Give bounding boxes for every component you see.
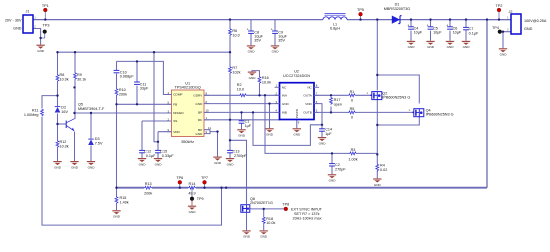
svg-text:102k: 102k xyxy=(232,71,240,75)
wire R8 column xyxy=(57,52,59,161)
ground J1 xyxy=(36,45,44,53)
wire Q6 source to ground xyxy=(246,213,248,230)
svg-text:2700pF: 2700pF xyxy=(234,154,247,158)
node H2 right xyxy=(229,51,231,53)
wire R6 R7 RC column xyxy=(229,20,231,141)
ground C6 xyxy=(446,41,454,49)
ground R4 xyxy=(373,179,381,187)
capacitor C8 polarized xyxy=(247,27,264,42)
svg-text:33pF: 33pF xyxy=(140,87,149,91)
wire comp network top rail xyxy=(117,61,172,94)
node FB comp xyxy=(115,103,117,105)
node VDD feed top xyxy=(153,51,155,53)
resistor R1 xyxy=(348,90,356,103)
wire TP2 stem xyxy=(498,12,500,20)
svg-text:SET R7 = 137k: SET R7 = 137k xyxy=(294,212,320,216)
node Q2 Q4 source xyxy=(376,124,378,126)
wire C2 stem xyxy=(331,153,333,174)
svg-text:+: + xyxy=(407,23,409,27)
capacitor C13 xyxy=(227,150,247,158)
svg-text:0.068µF: 0.068µF xyxy=(120,75,135,79)
node TP5 junction xyxy=(359,18,361,20)
node R6 top xyxy=(229,18,231,20)
svg-text:R9: R9 xyxy=(77,73,82,77)
svg-text:6.8µH: 6.8µH xyxy=(330,27,340,31)
node C5 top xyxy=(429,18,431,20)
ground R16 xyxy=(248,72,256,80)
svg-text:J1: J1 xyxy=(26,9,30,13)
ground C14 xyxy=(318,138,326,146)
svg-text:FB: FB xyxy=(173,103,177,107)
node C11 top xyxy=(136,60,138,62)
svg-text:+: + xyxy=(271,27,273,31)
svg-text:20Hz-100Hz max: 20Hz-100Hz max xyxy=(293,217,322,221)
node C2 top xyxy=(331,152,333,154)
node C6 top xyxy=(449,18,451,20)
svg-text:TP1: TP1 xyxy=(42,4,49,8)
wire C6 stem xyxy=(449,20,451,41)
node C11 bottom xyxy=(136,103,138,105)
wire bottom FB rail xyxy=(117,187,488,189)
svg-text:GND: GND xyxy=(282,102,290,106)
svg-text:BP: BP xyxy=(198,111,202,115)
wire GDRV row with R2 xyxy=(204,94,280,96)
svg-text:0.33µF: 0.33µF xyxy=(162,154,174,158)
svg-text:R12: R12 xyxy=(60,140,67,144)
capacitor C10 xyxy=(114,70,135,78)
node TP1 junction xyxy=(44,18,46,20)
node TP7 xyxy=(203,187,205,189)
svg-text:1.00k: 1.00k xyxy=(348,157,357,161)
wire C5 stem xyxy=(430,20,432,41)
resistor R8 xyxy=(56,73,69,82)
wire RC pin row xyxy=(204,119,280,121)
svg-text:10.0k: 10.0k xyxy=(60,77,69,81)
resistor R6 xyxy=(229,28,240,37)
ground Q5 emitter xyxy=(70,162,78,170)
svg-text:1: 1 xyxy=(367,91,369,95)
svg-text:7.5V: 7.5V xyxy=(95,141,103,145)
svg-text:GND: GND xyxy=(524,27,533,31)
wire R16 column xyxy=(252,71,260,96)
svg-text:RC: RC xyxy=(198,118,203,122)
svg-text:L1: L1 xyxy=(333,22,337,26)
resistor R5 xyxy=(348,107,356,120)
svg-text:0.02: 0.02 xyxy=(380,168,387,172)
node FB bottom rail xyxy=(115,187,117,189)
svg-text:R8: R8 xyxy=(60,73,65,77)
node R18 top xyxy=(263,208,265,210)
node RC R7 xyxy=(229,119,231,121)
wire U2 GND drop xyxy=(269,104,271,129)
ground J2 xyxy=(499,49,507,57)
wire C15 ground stem xyxy=(157,153,159,158)
wire TP7 stem xyxy=(204,184,206,188)
connector J2 xyxy=(507,10,547,34)
wire ISNS sense column xyxy=(265,95,377,153)
ground R18 xyxy=(260,231,268,239)
node Q2 drain top xyxy=(376,18,378,20)
wire R11 branch left xyxy=(42,96,222,226)
wire R18 column xyxy=(263,209,265,230)
resistor R14 xyxy=(188,182,196,196)
wire C9 stem xyxy=(274,20,276,46)
wire D3 column xyxy=(90,113,92,161)
ground C1 xyxy=(237,130,245,138)
wire C1 stem xyxy=(241,112,243,129)
wire U2 VDD pin column to C14 xyxy=(314,104,322,137)
svg-text:C13: C13 xyxy=(233,150,240,154)
node TP2 junction xyxy=(498,18,500,20)
node J1 gnd junction xyxy=(39,37,41,39)
svg-text:C10: C10 xyxy=(120,70,127,74)
svg-text:C14: C14 xyxy=(325,128,332,132)
svg-text:R5: R5 xyxy=(350,107,355,111)
svg-text:TP3: TP3 xyxy=(43,24,50,28)
ground D3 xyxy=(87,162,95,170)
svg-text:INB: INB xyxy=(282,111,287,115)
resistor R9 xyxy=(74,72,87,81)
wire OUTB row to Q4 gate xyxy=(314,111,412,113)
svg-text:D3: D3 xyxy=(95,137,100,141)
svg-text:SS: SS xyxy=(173,119,177,123)
svg-text:TPS40210DGQ: TPS40210DGQ xyxy=(175,86,201,90)
capacitor C6 polarized xyxy=(446,23,462,34)
svg-text:16V: 16V xyxy=(61,110,68,114)
svg-text:1: 1 xyxy=(409,108,411,112)
wire C12 ground stem xyxy=(141,153,143,158)
capacitor C2 xyxy=(329,163,346,171)
svg-text:TP2: TP2 xyxy=(496,4,503,8)
ground R15 xyxy=(112,211,120,219)
wire SS to C12 xyxy=(142,121,172,150)
svg-text:R15: R15 xyxy=(120,196,127,200)
svg-text:R6: R6 xyxy=(232,29,237,33)
node C7 top xyxy=(465,18,467,20)
svg-text:EXT SYNC INPUT: EXT SYNC INPUT xyxy=(291,207,323,211)
svg-text:GND: GND xyxy=(195,132,203,136)
capacitor C15 xyxy=(155,150,174,158)
capacitor C4 polarized xyxy=(407,23,423,34)
svg-text:1.00Meg: 1.00Meg xyxy=(24,113,39,117)
wire C11 column xyxy=(136,61,138,104)
ground C8 xyxy=(247,46,255,54)
node Q2 Q4 drain branch xyxy=(376,74,378,76)
node TP6 xyxy=(179,187,181,189)
diode D1 xyxy=(384,3,411,24)
svg-text:NC: NC xyxy=(282,86,287,90)
svg-text:10.0k: 10.0k xyxy=(262,80,271,84)
svg-text:C15: C15 xyxy=(160,150,167,154)
wire main top rail from J1 to L1 xyxy=(33,19,323,21)
svg-text:10: 10 xyxy=(206,109,210,113)
svg-text:TP4: TP4 xyxy=(492,26,499,30)
node R17 bottom xyxy=(330,111,332,113)
wire R15 column xyxy=(116,188,118,211)
svg-text:C2: C2 xyxy=(335,163,340,167)
node C4 top xyxy=(410,18,412,20)
resistor R2 xyxy=(237,83,247,97)
wire U2 VDD feed loop xyxy=(253,112,322,145)
svg-text:R17: R17 xyxy=(334,98,341,102)
ground R12 xyxy=(53,162,61,170)
wire Q2 drain column xyxy=(376,20,378,91)
ground C9 xyxy=(271,46,279,54)
ground U2 xyxy=(265,129,273,137)
svg-text:10µF: 10µF xyxy=(453,31,462,35)
svg-text:UCC27324DGN: UCC27324DGN xyxy=(283,74,310,78)
node C1 BP xyxy=(240,111,242,113)
wire Q6 drain column crossing rail xyxy=(246,188,248,204)
node sense column top xyxy=(264,94,266,96)
wire VDD rail H2 xyxy=(58,51,231,53)
wire Q5 emitter to ground xyxy=(74,132,76,162)
svg-text:1µF: 1µF xyxy=(245,124,252,128)
svg-text:C12: C12 xyxy=(144,150,151,154)
wire DIS/EN long wire xyxy=(75,112,172,114)
svg-text:0: 0 xyxy=(351,99,353,103)
svg-text:R16: R16 xyxy=(262,76,269,80)
wire C10 R10 FB column xyxy=(116,61,118,188)
op-amp U1 TPS40210DGQ xyxy=(167,82,212,145)
svg-text:200k: 200k xyxy=(119,92,127,96)
node C14 junction xyxy=(321,124,323,126)
node D2 R12 base xyxy=(56,123,58,125)
svg-text:TP8: TP8 xyxy=(282,202,289,206)
svg-text:MMBT3904-T-F: MMBT3904-T-F xyxy=(78,107,105,111)
svg-text:+: + xyxy=(446,23,448,27)
svg-text:R13: R13 xyxy=(145,182,152,186)
ground C5 xyxy=(426,41,434,49)
svg-text:TP5: TP5 xyxy=(357,8,364,12)
wire PWPD stem xyxy=(296,120,298,129)
mosfet Q2 xyxy=(367,91,411,100)
svg-text:270pF: 270pF xyxy=(335,167,346,171)
svg-text:35V: 35V xyxy=(254,39,261,43)
wire Q2 to Q4 drain branch xyxy=(377,75,419,104)
wire TP9 stem xyxy=(191,188,193,197)
wire J2 pin1 xyxy=(487,19,511,21)
svg-text:11: 11 xyxy=(208,126,211,130)
ground ISNS xyxy=(213,157,221,165)
svg-text:C1: C1 xyxy=(245,119,250,123)
wire C7 stem xyxy=(465,20,467,41)
svg-text:PWPD: PWPD xyxy=(295,108,299,118)
node R9 mid xyxy=(73,86,75,88)
svg-text:IPB600N25N3 G: IPB600N25N3 G xyxy=(382,95,410,99)
svg-text:MBRS3200T3G: MBRS3200T3G xyxy=(384,7,411,11)
capacitor C14 xyxy=(319,128,332,136)
capacitor C1 xyxy=(239,119,252,127)
svg-text:Q5: Q5 xyxy=(78,102,83,106)
wire U1 GND to U2 GND row xyxy=(204,103,280,105)
node U2 gnd drop xyxy=(268,102,270,104)
node R11 return xyxy=(220,187,222,189)
wire VDD pin to C15 xyxy=(158,132,172,151)
ground C15 xyxy=(154,159,162,167)
transistor Q5 xyxy=(66,102,105,130)
svg-text:0.1µF: 0.1µF xyxy=(146,154,156,158)
svg-text:10µF: 10µF xyxy=(414,31,423,35)
wire TP3 stem xyxy=(41,34,45,39)
svg-text:2: 2 xyxy=(34,25,36,29)
wire VDD feed column from H2 xyxy=(154,52,158,142)
svg-text:IPB600N25N3 G: IPB600N25N3 G xyxy=(426,113,454,117)
capacitor C9 polarized xyxy=(271,27,288,42)
wire R9 / Q5 collector column xyxy=(74,52,76,119)
test point TP2 xyxy=(496,4,503,12)
wire Q4 source to common xyxy=(377,117,419,125)
wire R4 stem xyxy=(376,154,378,178)
wire R17 column xyxy=(330,95,332,112)
svg-text:2N7002ET1G: 2N7002ET1G xyxy=(250,201,273,205)
svg-text:GDRV: GDRV xyxy=(193,94,203,98)
connector J1 xyxy=(5,9,36,33)
svg-text:R11: R11 xyxy=(32,108,39,112)
node ISNS pad xyxy=(216,130,218,132)
node R9 top xyxy=(74,51,76,53)
resistor R3 xyxy=(348,148,357,162)
svg-text:1.40k: 1.40k xyxy=(120,200,129,204)
svg-text:NC: NC xyxy=(307,86,312,90)
svg-text:20V - 30V: 20V - 30V xyxy=(5,19,22,23)
wire Q6 gate row to TP8 xyxy=(250,208,284,210)
svg-text:2: 2 xyxy=(507,28,509,32)
ground C7 xyxy=(462,41,470,49)
node R4 top xyxy=(376,153,378,155)
node R8 R11 D2 xyxy=(56,94,58,96)
svg-text:R2: R2 xyxy=(237,83,242,87)
resistor R13 xyxy=(144,182,152,196)
svg-text:10.0k: 10.0k xyxy=(266,221,275,225)
svg-text:+: + xyxy=(427,23,429,27)
zener D3 xyxy=(88,137,103,145)
mosfet Q6 xyxy=(241,197,273,213)
svg-text:R14: R14 xyxy=(189,182,196,186)
test point TP4 xyxy=(492,26,502,34)
node RC C13 xyxy=(229,139,231,141)
wire TP6 stem xyxy=(179,184,181,188)
resistor R17 xyxy=(330,97,342,107)
ground Q6 xyxy=(242,231,250,239)
svg-text:R1: R1 xyxy=(350,90,355,94)
svg-text:0.1µF: 0.1µF xyxy=(469,31,479,35)
test point TP3 xyxy=(43,24,50,34)
node R16 bottom xyxy=(258,94,260,96)
svg-text:35V: 35V xyxy=(278,39,285,43)
svg-text:GND: GND xyxy=(195,102,203,106)
test point TP5 xyxy=(357,8,364,16)
svg-text:DIS/EN: DIS/EN xyxy=(173,111,183,115)
test point TP1 xyxy=(42,4,49,12)
ground C12 xyxy=(138,159,146,167)
svg-text:R10: R10 xyxy=(119,88,126,92)
resistor R11 xyxy=(24,108,44,116)
svg-text:0: 0 xyxy=(351,116,353,120)
mosfet Q4 xyxy=(409,108,454,117)
wire C8 stem xyxy=(250,20,252,46)
wire FB row xyxy=(117,103,172,105)
svg-text:100V@0.25A: 100V@0.25A xyxy=(524,19,547,23)
svg-text:INA: INA xyxy=(282,94,288,98)
node rail aux xyxy=(225,187,227,189)
svg-text:10.0k: 10.0k xyxy=(60,144,69,148)
capacitor C7 xyxy=(463,27,479,35)
svg-text:49.9: 49.9 xyxy=(188,191,195,195)
resistor R4 xyxy=(376,163,387,171)
svg-text:J2: J2 xyxy=(509,10,513,14)
svg-text:VDD: VDD xyxy=(173,130,180,134)
inductor L1 xyxy=(323,14,347,31)
capacitor C12 xyxy=(139,150,156,158)
zener D2 xyxy=(55,106,69,114)
svg-text:30.1k: 30.1k xyxy=(77,77,86,81)
ground PWPD xyxy=(293,129,301,137)
resistor R12 xyxy=(56,140,69,148)
svg-text:10.0: 10.0 xyxy=(232,33,239,37)
test point TP9 xyxy=(190,197,203,206)
svg-text:10.0: 10.0 xyxy=(237,87,244,91)
wire C13 stem xyxy=(229,140,231,158)
test point TP8 xyxy=(282,202,322,220)
capacitor C5 polarized xyxy=(427,23,443,34)
ground C13 xyxy=(226,159,234,167)
svg-text:R4: R4 xyxy=(380,163,385,167)
node sense loop top xyxy=(486,18,488,20)
svg-text:+: + xyxy=(247,27,249,31)
svg-text:10µF: 10µF xyxy=(433,31,442,35)
svg-text:TP6: TP6 xyxy=(176,176,183,180)
resistor R16 xyxy=(258,76,271,84)
wire output sense loop right side xyxy=(486,20,488,188)
wire TP5 stem xyxy=(360,16,362,20)
svg-text:D1: D1 xyxy=(395,3,400,7)
svg-text:COMP: COMP xyxy=(173,93,182,97)
wire Q5 base xyxy=(58,123,67,125)
wire Q2 source column xyxy=(376,100,378,155)
wire RC to Q6 drain xyxy=(230,140,247,204)
svg-text:VDD: VDD xyxy=(305,102,312,106)
test point TP6 xyxy=(176,176,183,184)
node U2 vdd feed top xyxy=(252,111,254,113)
ground TP9 xyxy=(188,206,196,214)
wire OUTA row to Q2 gate xyxy=(314,94,370,96)
node R17 top xyxy=(330,94,332,96)
svg-text:550kHz: 550kHz xyxy=(181,140,194,144)
node J2 gnd junction xyxy=(502,31,504,33)
node R8 top xyxy=(56,51,58,53)
test point TP7 xyxy=(201,176,208,184)
wire output rail L1 to J2 xyxy=(347,19,511,21)
node Q5 collector DIS xyxy=(73,112,75,114)
svg-text:9: 9 xyxy=(298,121,300,125)
svg-text:D2: D2 xyxy=(61,106,66,110)
svg-text:OUTA: OUTA xyxy=(303,94,312,98)
svg-text:open: open xyxy=(334,103,342,107)
svg-text:C11: C11 xyxy=(140,82,147,86)
ground C2 xyxy=(328,175,336,183)
resistor R7 xyxy=(229,66,241,75)
node VDD pin cap xyxy=(157,141,159,143)
resistor R15 xyxy=(115,196,129,204)
resistor R18 xyxy=(262,216,275,225)
svg-text:OUTB: OUTB xyxy=(303,111,312,115)
wire BP to INB row xyxy=(204,111,280,113)
wire TP1 stem xyxy=(44,12,46,20)
wire U1 ISNS stubs xyxy=(204,130,218,157)
wire J1 pin2 to ground node xyxy=(33,29,41,45)
wire J2 pin2 to ground xyxy=(502,32,511,49)
